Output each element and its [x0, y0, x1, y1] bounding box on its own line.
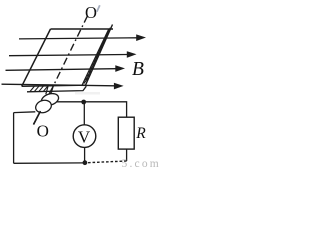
plate top edge	[51, 28, 114, 30]
dashed bottom wire (R to junction)	[88, 161, 127, 163]
plate bottom edge (outer)	[22, 85, 86, 86]
coil lead wire 2	[51, 86, 53, 93]
plate right edge (outer, hatched band)	[86, 25, 113, 86]
wire: voltmeter down to bottom wire	[84, 147, 86, 162]
resistor R box	[118, 117, 134, 149]
junction node (top)	[81, 100, 86, 105]
svg-text:5.com: 5.com	[122, 158, 161, 168]
coil lead wire 1	[46, 86, 48, 94]
junction node (bottom)	[83, 160, 88, 165]
right edge hatching	[84, 28, 111, 84]
svg-text:O: O	[85, 3, 97, 22]
wire: left to ring1	[14, 111, 36, 114]
field line B1	[19, 34, 146, 41]
wire: R down	[126, 149, 128, 161]
plate bottom edge (inner)	[27, 86, 86, 92]
slip ring 1 (front)	[34, 98, 53, 114]
svg-text:V: V	[78, 127, 91, 146]
O' prime mark	[97, 5, 100, 12]
slip ring 2 (rear)	[40, 92, 60, 108]
voltmeter V	[73, 125, 96, 148]
field line B2	[9, 51, 137, 58]
bottom wire (junction to left)	[14, 162, 85, 164]
axis O-O' dash-dot	[52, 16, 87, 88]
field line B3	[6, 65, 126, 72]
svg-text:R: R	[135, 125, 146, 142]
plate right edge (inner)	[82, 29, 109, 85]
left wire up	[13, 113, 15, 164]
wire: ring2 to R branch (top wire)	[57, 102, 127, 117]
wire: junction down to voltmeter	[83, 102, 85, 125]
shaft tail below rings	[34, 111, 41, 125]
shaft (solid axis below plate)	[34, 88, 53, 125]
watermark mid	[75, 92, 100, 95]
svg-text:B: B	[132, 59, 144, 80]
plate left edge	[22, 29, 51, 86]
svg-text:O: O	[37, 121, 49, 140]
field line B4	[2, 83, 124, 90]
bottom edge hatching	[30, 86, 48, 91]
